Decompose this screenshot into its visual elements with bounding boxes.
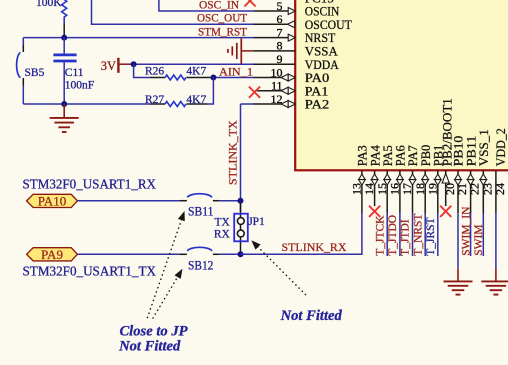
- resistor R27 zigzag: [165, 102, 186, 107]
- svg-text:Close to JP: Close to JP: [119, 324, 187, 340]
- svg-text:T_NRST: T_NRST: [412, 214, 424, 256]
- ground GND (below C11): [63, 104, 65, 118]
- node junction C11/GND rail: [61, 101, 67, 107]
- wire C11 bottom to rail: [63, 62, 65, 104]
- svg-text:PA10: PA10: [38, 195, 67, 209]
- jumper JP1 pin stub (black through-wire): [240, 204, 242, 253]
- pin 23 io arrows: [480, 174, 487, 180]
- wire SB11 to junction: [213, 200, 219, 202]
- wire STLINK_TX riser: [240, 104, 242, 211]
- pin 11 io arrows: [281, 87, 288, 94]
- svg-text:8: 8: [277, 39, 283, 53]
- svg-text:R26: R26: [145, 66, 164, 78]
- svg-text:AIN_1: AIN_1: [219, 64, 253, 78]
- wire PA10 to SB11: [77, 200, 180, 202]
- svg-text:STM32F0_USART1_RX: STM32F0_USART1_RX: [23, 177, 157, 192]
- pin 16 io arrows: [397, 174, 404, 180]
- IC U2 STM32F103 body: [295, 0, 508, 170]
- wire pin 16: [399, 213, 401, 256]
- svg-text:STM_RST: STM_RST: [198, 25, 248, 39]
- pin 15 io arrows: [384, 174, 391, 180]
- pin 18 io arrows: [422, 174, 429, 180]
- svg-text:TX: TX: [214, 217, 230, 229]
- wire pin 19: [437, 213, 439, 256]
- jumper JP1 body: [234, 214, 248, 242]
- wire left drop to SB5: [22, 38, 24, 45]
- pin 22 stub: [470, 170, 472, 213]
- svg-text:SB12: SB12: [188, 258, 213, 272]
- leader line to SB11: [148, 219, 182, 318]
- wire STM_RST horizontal: [23, 37, 253, 39]
- node junction riser/PA10: [238, 198, 244, 204]
- leader line to JP1: [257, 246, 306, 295]
- pin 21 stub: [457, 170, 459, 213]
- JP1 pin 2 circle: [237, 230, 244, 237]
- wire JP1 bottom to PA9 row: [240, 252, 242, 255]
- port PA9: [27, 248, 78, 261]
- svg-text:5: 5: [277, 0, 283, 13]
- no-connect X on pin 20: [440, 206, 451, 217]
- svg-text:STLINK_TX: STLINK_TX: [226, 120, 240, 185]
- solder bridge SB5 (open arc): [17, 53, 21, 78]
- svg-text:SWIM: SWIM: [473, 224, 485, 255]
- wire OSC_OUT (riser from top edge): [92, 0, 254, 24]
- svg-text:T_JTDI: T_JTDI: [400, 219, 412, 256]
- pin 12 stub: [254, 103, 296, 105]
- svg-text:9: 9: [277, 52, 283, 66]
- wire SB12 to junction: [213, 253, 219, 255]
- pin 17 stub: [412, 170, 414, 213]
- svg-text:OSC_OUT: OSC_OUT: [197, 11, 248, 25]
- wire STLINK_RX to pin 13: [241, 213, 362, 254]
- ground (pin 21): [457, 269, 459, 282]
- svg-text:STLINK_RX: STLINK_RX: [282, 240, 347, 254]
- pin 18 stub: [424, 170, 426, 213]
- pin 16 stub: [399, 170, 401, 213]
- svg-text:SB5: SB5: [25, 67, 45, 79]
- pin 13 io arrows: [359, 174, 366, 180]
- pin 21 io arrows: [455, 174, 462, 180]
- pin 11 stub: [257, 90, 295, 92]
- wire pin 22: [470, 213, 472, 256]
- pin 6 output arrow: [287, 21, 294, 28]
- svg-text:Not Fitted: Not Fitted: [280, 308, 343, 324]
- node junction 3V: [131, 61, 137, 67]
- pin 6 stub: [254, 23, 296, 25]
- wire PA9 to SB12: [77, 253, 180, 255]
- svg-text:SB11: SB11: [188, 204, 213, 218]
- node junction JP1/PA9: [238, 251, 244, 257]
- node junction R26/R27: [210, 75, 216, 81]
- solder bridge SB12 arc: [187, 247, 212, 251]
- wire VDDA row: [134, 63, 254, 65]
- pin 5 input arrow: [288, 8, 295, 15]
- wire pin 21 to ground: [457, 213, 459, 269]
- ground (pin 24, cut at right edge): [495, 269, 497, 282]
- svg-text:R27: R27: [145, 94, 164, 106]
- leader line to SB12: [153, 276, 178, 318]
- svg-text:PA2: PA2: [305, 97, 330, 112]
- wire SB5 bottom: [22, 78, 24, 85]
- pin 14 stub: [374, 170, 376, 206]
- pin 10 io arrows: [281, 74, 288, 81]
- svg-text:JP1: JP1: [248, 216, 265, 228]
- wire bottom rail (GND/R27 row): [23, 103, 150, 105]
- svg-text:3V: 3V: [101, 59, 116, 73]
- pin 13 stub: [361, 170, 363, 213]
- svg-text:24: 24: [493, 183, 507, 195]
- wire pin 18: [424, 213, 426, 256]
- wire pin12 to riser: [241, 103, 254, 105]
- resistor R26 zigzag: [165, 75, 186, 80]
- pin 22 io arrows: [467, 174, 474, 180]
- wire junction to C11 top: [63, 38, 65, 54]
- pin 5 stub: [254, 10, 296, 12]
- pin 14 io arrows: [371, 174, 378, 180]
- wire pin 24 to ground: [495, 213, 497, 269]
- svg-text:T_JTDO: T_JTDO: [387, 215, 399, 256]
- svg-text:RX: RX: [214, 229, 231, 241]
- svg-text:100K: 100K: [36, 0, 62, 9]
- svg-text:C11: C11: [65, 67, 84, 79]
- node junction 100K/STM_RST: [61, 35, 67, 41]
- pin 9 stub: [254, 63, 296, 65]
- wire OSC_IN (riser from top edge): [159, 0, 254, 11]
- pin 17 io arrows: [409, 174, 416, 180]
- pin 20 stub: [445, 170, 447, 206]
- svg-text:VDD_2: VDD_2: [493, 128, 508, 166]
- svg-text:6: 6: [277, 12, 283, 26]
- solder bridge SB11 arc: [187, 194, 212, 198]
- svg-text:7: 7: [277, 25, 283, 39]
- svg-text:STM32F0_USART1_TX: STM32F0_USART1_TX: [23, 264, 157, 279]
- svg-text:T_JTCK: T_JTCK: [374, 215, 386, 256]
- wire resistor to junction: [63, 24, 65, 38]
- pin 7 input arrow: [288, 34, 295, 41]
- svg-text:4K7: 4K7: [186, 66, 206, 78]
- wire pin 17: [412, 213, 414, 256]
- pin 7 stub: [254, 37, 296, 39]
- pin 24 stub: [495, 170, 497, 213]
- pin 10 stub: [254, 77, 296, 79]
- port PA10: [27, 194, 78, 207]
- wire 3V bar to junction (red): [118, 63, 133, 65]
- no-connect X on pin 4 row (cut at top): [244, 0, 255, 6]
- wire pin 23: [482, 213, 484, 256]
- pin 20 input arrow: [442, 173, 449, 183]
- capacitor C11 plates: [53, 54, 76, 57]
- resistor R 100K (partially cut at top): [62, 0, 67, 24]
- svg-text:4K7: 4K7: [186, 94, 206, 106]
- no-connect X on pin 11: [249, 87, 260, 98]
- pin 8 stub: [254, 50, 296, 52]
- wire 3V down to R26 row: [134, 64, 150, 77]
- svg-text:100nF: 100nF: [65, 80, 94, 92]
- JP1 pin 1 circle: [237, 218, 244, 225]
- pin 23 stub: [482, 170, 484, 213]
- pin 19 io arrows: [435, 174, 442, 180]
- svg-text:SWIM_IN: SWIM_IN: [461, 206, 473, 256]
- svg-text:T_JRST: T_JRST: [425, 217, 437, 255]
- svg-text:PA9: PA9: [41, 248, 63, 262]
- pin 15 stub: [386, 170, 388, 213]
- wire pin 15: [386, 213, 388, 256]
- pin 19 stub: [437, 170, 439, 213]
- wire R26 to pin10 (AIN_1): [187, 77, 211, 79]
- wire junction down to R27 row: [207, 78, 213, 105]
- svg-text:Not Fitted: Not Fitted: [118, 338, 181, 354]
- pin 12 io arrows: [281, 101, 288, 108]
- ground VSSA symbol (rotated, pin 8): [241, 50, 253, 52]
- no-connect X on pin 14: [369, 206, 380, 217]
- svg-text:VSS_1: VSS_1: [476, 129, 491, 166]
